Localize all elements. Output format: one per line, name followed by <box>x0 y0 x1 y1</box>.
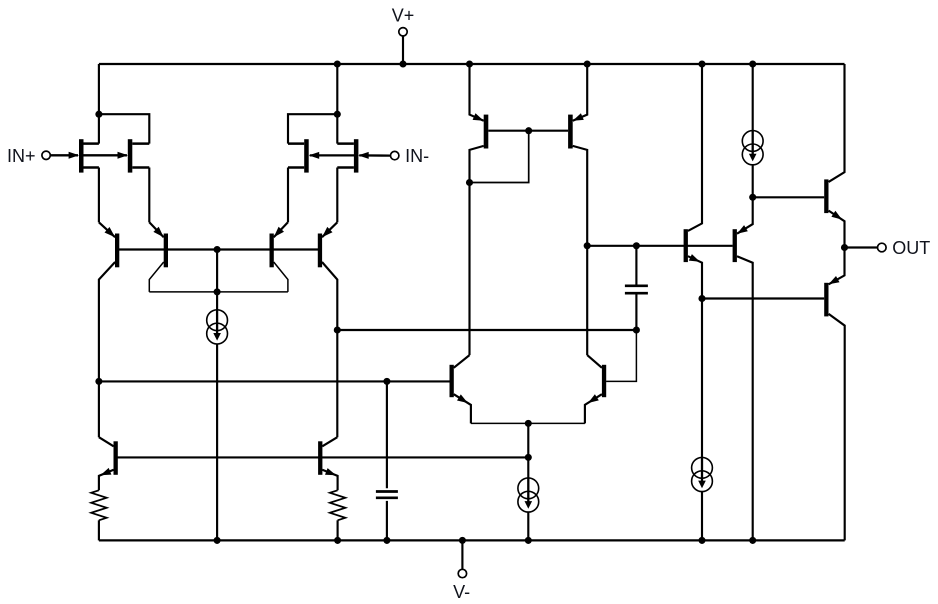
svg-text:IN+: IN+ <box>7 146 36 166</box>
svg-text:OUT: OUT <box>892 238 930 258</box>
svg-text:IN-: IN- <box>405 146 429 166</box>
svg-text:V+: V+ <box>392 6 415 26</box>
svg-text:V-: V- <box>453 582 470 602</box>
